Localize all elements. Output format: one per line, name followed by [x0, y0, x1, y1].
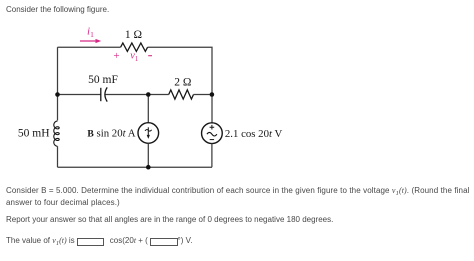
paragraph 1 [6, 185, 470, 209]
junction node: bottom rail center [146, 165, 151, 170]
wire: resistor to top-right corner, down right side to voltage source [148, 47, 212, 123]
voltage source minus sign [210, 139, 214, 141]
answer line [6, 235, 192, 247]
svg-text:50 mF: 50 mF [88, 74, 118, 86]
junction node: middle rail right [210, 92, 215, 97]
wire: middle branch lower [147, 143, 149, 167]
voltage source tilde [207, 132, 217, 136]
polarity minus v1 [148, 55, 152, 57]
svg-text:2.1 cos 20t V: 2.1 cos 20t V [225, 128, 283, 140]
capacitor C 50mF curved plate [105, 87, 107, 101]
svg-text:+: + [113, 50, 119, 62]
resistor R 2-ohm [169, 90, 194, 99]
current source circle B sin 20t A [138, 123, 159, 144]
wire: middle rail left to capacitor [58, 94, 101, 96]
voltage source circle 2.1 cos 20t V [202, 123, 223, 144]
junction node: middle rail left [55, 92, 60, 97]
wire: left vertical bottom segment [57, 146, 59, 167]
wire: left vertical top segment [57, 47, 59, 120]
junction node: middle rail center [146, 92, 151, 97]
wire: capacitor to 2-ohm resistor [105, 94, 168, 96]
heading text [6, 4, 109, 16]
paragraph 2 [6, 214, 333, 226]
svg-text:1 Ω: 1 Ω [125, 29, 142, 41]
svg-text:2 Ω: 2 Ω [174, 77, 191, 89]
capacitor C 50mF straight plate [100, 88, 102, 101]
voltage source plus sign [210, 125, 215, 130]
svg-text:i1: i1 [87, 26, 94, 40]
wire: bottom rail [58, 166, 213, 168]
wire: middle branch upper [147, 95, 149, 123]
wire: top-left to 1-ohm resistor [58, 46, 121, 48]
wire: voltage source to bottom-right corner [211, 144, 213, 168]
svg-text:50 mH: 50 mH [18, 128, 50, 140]
current arrow i1 [80, 40, 96, 42]
resistor R 1-ohm [121, 43, 148, 51]
current source arrow [145, 130, 152, 132]
inductor L 50mH [54, 121, 59, 146]
svg-text:v1: v1 [130, 51, 139, 63]
svg-text:B sin 20t A: B sin 20t A [87, 127, 135, 139]
wire: 2-ohm resistor to right rail [194, 94, 213, 96]
